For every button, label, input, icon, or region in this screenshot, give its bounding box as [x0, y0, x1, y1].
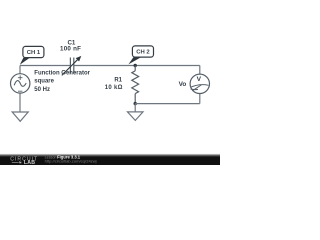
footer lesson text [45, 154, 97, 163]
svg-text:LAB: LAB [24, 160, 35, 165]
svg-text:R1: R1 [114, 78, 122, 84]
wire right branch upper [199, 66, 201, 75]
footer bar [0, 154, 220, 157]
svg-text:CH 1: CH 1 [27, 50, 41, 56]
wire ground stub under R1 [134, 104, 136, 112]
footer CircuitLab logo [10, 156, 38, 165]
resistor R1 [132, 66, 139, 104]
function generator V1 [11, 74, 30, 93]
wire left branch upper [19, 66, 21, 74]
voltmeter M1 [190, 74, 209, 93]
svg-text:CH 2: CH 2 [136, 50, 150, 56]
svg-text:Vo: Vo [179, 81, 187, 88]
ground (under R1) [128, 112, 144, 121]
svg-text:http://circuitlab.com/cqr24zwj: http://circuitlab.com/cqr24zwj [45, 158, 97, 163]
svg-text:10 kΩ: 10 kΩ [105, 85, 123, 91]
flag CH 1 [20, 46, 44, 64]
ground (left) [12, 112, 28, 121]
svg-text:Function Generator: Function Generator [34, 70, 90, 76]
wire top rail left segment [20, 65, 70, 67]
node junction bottom [134, 102, 137, 105]
wire top rail right segment [74, 65, 200, 67]
capacitor C1 variable arrow [62, 56, 82, 76]
flag CH 2 [128, 46, 153, 65]
svg-text:V: V [197, 76, 202, 83]
wire bottom rail [135, 103, 200, 105]
node junction top (CH2 / R1) [134, 64, 137, 67]
svg-text:square: square [34, 79, 54, 85]
wire right branch lower [199, 94, 201, 104]
capacitor C1 plates [70, 58, 73, 74]
svg-text:100 nF: 100 nF [60, 46, 81, 53]
wire left branch lower [19, 93, 21, 112]
svg-text:50 Hz: 50 Hz [34, 87, 50, 93]
